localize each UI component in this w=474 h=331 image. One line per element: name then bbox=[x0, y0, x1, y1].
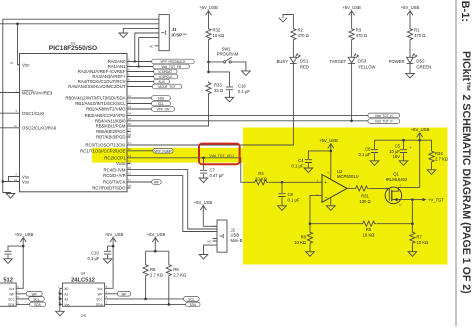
svg-text:WP: WP bbox=[97, 293, 102, 297]
svg-text:Mini-B: Mini-B bbox=[231, 238, 243, 243]
wire R31 to Q1 gate bbox=[369, 188, 389, 190]
svg-text:10 KΩ: 10 KΩ bbox=[363, 233, 375, 238]
wire U4 address bus to ground bbox=[60, 288, 63, 311]
svg-text:RB1/AN10/INT1/SCK/SCL: RB1/AN10/INT1/SCK/SCL bbox=[75, 101, 126, 106]
svg-text:RB3/AN9/CCP2/VPO: RB3/AN9/CCP2/VPO bbox=[85, 113, 126, 118]
wire RB3 row to Vdd_TGT_N tag bbox=[131, 114, 368, 116]
resistor R32 bbox=[206, 28, 224, 41]
svg-text:SCL: SCL bbox=[33, 297, 39, 301]
svg-text:Vdd_TGT_FB: Vdd_TGT_FB bbox=[161, 65, 181, 69]
capacitor (cut at edge) bbox=[4, 251, 11, 254]
svg-text:Vcc: Vcc bbox=[97, 287, 103, 291]
node divider right bbox=[411, 222, 414, 225]
svg-text:Vcc: Vcc bbox=[9, 287, 15, 291]
svg-text:28: 28 bbox=[128, 133, 132, 137]
svg-text:TARGET: TARGET bbox=[330, 59, 347, 64]
svg-text:+5V_USB: +5V_USB bbox=[105, 232, 124, 237]
svg-text:16V: 16V bbox=[393, 154, 401, 159]
svg-text:SDA: SDA bbox=[158, 97, 165, 101]
svg-text:VSS: VSS bbox=[22, 180, 29, 185]
svg-text:R6: R6 bbox=[301, 235, 307, 240]
svg-text:WP: WP bbox=[154, 181, 159, 185]
svg-text:A2: A2 bbox=[64, 298, 68, 302]
node R8 SCL junction bbox=[144, 298, 147, 301]
wire inverting input feedback bbox=[310, 195, 322, 223]
wire to C5 bbox=[403, 140, 405, 149]
wire U4 WP pin to tag bbox=[105, 293, 118, 295]
svg-text:RC6/TX/CK: RC6/TX/CK bbox=[103, 180, 126, 185]
U1 left pin OSC2/CLKO/RA6 (10) bbox=[14, 124, 57, 131]
svg-text:Vss: Vss bbox=[64, 303, 70, 307]
resistor R7 bbox=[410, 231, 428, 245]
node SDA tag bbox=[152, 96, 171, 101]
wire J1 pin4 down to RA0 row bbox=[135, 33, 155, 62]
svg-text:RB5/KBI1/PGM: RB5/KBI1/PGM bbox=[96, 124, 126, 129]
wire R4 to op-amp + input bbox=[269, 181, 323, 183]
svg-text:SDA: SDA bbox=[8, 303, 15, 307]
U1 left pin VDD (20) bbox=[10, 61, 30, 68]
svg-text:R5: R5 bbox=[366, 227, 372, 232]
svg-text:+5V_USB: +5V_USB bbox=[401, 5, 420, 10]
node DS3 to net bbox=[350, 120, 353, 123]
svg-text:RB7/KBI3/PGD: RB7/KBI3/PGD bbox=[96, 135, 125, 140]
ground below R7 bbox=[408, 252, 417, 257]
resistor R9 bbox=[166, 264, 186, 278]
wire RC6 row to tag bbox=[131, 181, 152, 183]
node R9 SDA junction bbox=[168, 303, 171, 306]
svg-text:SCL: SCL bbox=[8, 298, 14, 302]
op-amp U2 MCP6001U bbox=[317, 169, 359, 208]
svg-text:J1: J1 bbox=[172, 27, 178, 32]
svg-text:NC: NC bbox=[149, 44, 153, 48]
svg-text:0.1 μF: 0.1 μF bbox=[359, 152, 371, 157]
svg-text:470 Ω: 470 Ω bbox=[356, 33, 367, 38]
svg-text:DS3: DS3 bbox=[358, 58, 367, 63]
node C4 tap bbox=[330, 150, 333, 153]
wire RA3 row to tag bbox=[131, 76, 154, 78]
LED DS3 YELLOW (TARGET) bbox=[330, 54, 376, 70]
wire SDA pin to tag bbox=[16, 303, 29, 305]
wire RB2 row to tag bbox=[131, 108, 152, 110]
power +5V_USB left EEPROM bbox=[15, 232, 34, 242]
ground below C8 bbox=[278, 206, 287, 211]
svg-text:R32: R32 bbox=[213, 28, 221, 33]
wire C16 branch bbox=[209, 72, 230, 86]
svg-text:SDA: SDA bbox=[34, 303, 41, 307]
LED DS1 RED (BUSY) bbox=[277, 54, 309, 70]
svg-text:+: + bbox=[324, 180, 327, 186]
wire +5V to R3 bbox=[351, 11, 353, 27]
wire RA4 row to tag bbox=[131, 81, 154, 83]
svg-text:+V_TGT: +V_TGT bbox=[428, 197, 444, 202]
svg-text:10 KΩ: 10 KΩ bbox=[213, 33, 225, 38]
node pullup junction bbox=[154, 250, 157, 253]
svg-text:0.1 μF: 0.1 μF bbox=[238, 89, 250, 94]
svg-text:2*0: 2*0 bbox=[81, 314, 86, 318]
wire RA1 row to tag bbox=[131, 66, 154, 68]
wire rail to R34 bbox=[420, 140, 432, 150]
svg-text:VDD: VDD bbox=[22, 63, 30, 68]
wire J1 pin1 to left edge and down left side bbox=[3, 19, 155, 181]
node MCLR_TGT tag bbox=[152, 84, 182, 89]
wire +5V to op-amp V+ bbox=[330, 144, 332, 178]
wire R7 branch bbox=[411, 224, 413, 231]
node SDA tag left bbox=[30, 302, 46, 307]
wire R8 top bbox=[145, 251, 147, 263]
node Vdd_TGT_N tag bbox=[368, 113, 400, 118]
svg-text:ICSP™: ICSP™ bbox=[172, 33, 188, 38]
svg-text:27: 27 bbox=[128, 128, 132, 132]
svg-text:R34: R34 bbox=[435, 151, 443, 156]
ground below C7 bbox=[199, 178, 208, 183]
U1 right pin labels RA port bbox=[68, 59, 126, 89]
svg-text:RA5/AN4/SS/HLVDIN/C2OUT: RA5/AN4/SS/HLVDIN/C2OUT bbox=[68, 84, 126, 89]
node SW1 tap bbox=[207, 61, 210, 64]
node ICSPDAT tag bbox=[154, 69, 177, 74]
power +5V_USB above R8 R9 bbox=[147, 232, 166, 242]
wire RC4 D- to J2 bbox=[131, 170, 213, 229]
capacitor C10 bbox=[88, 251, 112, 262]
wire DS1 down into analog box to RC0 bbox=[131, 64, 294, 145]
wire down to C8 bbox=[281, 182, 283, 193]
wire J1 pin3 to ground bbox=[123, 28, 154, 33]
svg-text:10: 10 bbox=[14, 124, 18, 128]
node Vdd_TGT_P tag bbox=[368, 119, 400, 124]
node VPP_ON tag bbox=[152, 107, 175, 112]
wire RB0 row to tag bbox=[131, 97, 152, 99]
svg-text:SCL: SCL bbox=[188, 297, 194, 301]
ground below C10 bbox=[103, 259, 112, 264]
svg-text:0.1 μF: 0.1 μF bbox=[288, 198, 300, 203]
ground below VSS bbox=[6, 194, 15, 199]
wire C7 to ground bbox=[203, 174, 205, 178]
svg-text:10 μF: 10 μF bbox=[389, 149, 400, 154]
wire SCL pin to tag bbox=[16, 298, 29, 300]
wire C16 to ground bbox=[229, 90, 231, 97]
ground at SW1 bbox=[242, 71, 251, 76]
power +5V_USB at J2 bbox=[194, 200, 213, 210]
svg-text:VUSB: VUSB bbox=[116, 161, 125, 166]
node +5V rail junction bbox=[418, 139, 421, 142]
svg-text:DS2: DS2 bbox=[416, 58, 425, 63]
power +5V_USB above Q1 bbox=[411, 127, 430, 137]
node WP tag U4 bbox=[117, 292, 131, 297]
svg-text:RC0/T1OSO/T13CKI: RC0/T1OSO/T13CKI bbox=[85, 143, 125, 148]
ground below cap bbox=[4, 259, 13, 264]
wire RC5 D+ to J2 bbox=[131, 175, 213, 231]
U1 right pin labels RB port bbox=[65, 96, 126, 140]
svg-text:512: 512 bbox=[3, 277, 13, 283]
wire R2 to DS1 bbox=[292, 41, 294, 57]
ground below C4 bbox=[304, 168, 313, 173]
wire drain down to divider bbox=[411, 200, 413, 224]
wire to C10 bbox=[108, 246, 114, 251]
sidebar divider line bbox=[455, 0, 457, 326]
wire R1 to DS2 bbox=[409, 41, 411, 57]
svg-text:R33: R33 bbox=[214, 83, 222, 88]
svg-text:RB6/KBI2/PGC: RB6/KBI2/PGC bbox=[96, 129, 125, 134]
svg-text:R2: R2 bbox=[298, 28, 304, 33]
svg-text:RC5/D+/VP: RC5/D+/VP bbox=[103, 173, 125, 178]
svg-text:R3: R3 bbox=[356, 28, 362, 33]
svg-text:VPP_PUMP: VPP_PUMP bbox=[154, 149, 171, 153]
node bypass cap tap bbox=[22, 245, 25, 248]
svg-text:SCL: SCL bbox=[96, 298, 102, 302]
wire C8 to ground bbox=[281, 197, 283, 206]
node A1 junction bbox=[59, 293, 61, 295]
resistor R31 bbox=[354, 186, 370, 204]
ground below C5 bbox=[399, 161, 408, 166]
ground below DS2 bbox=[406, 73, 415, 78]
wire +5V rail down left EEPROM bbox=[16, 238, 23, 288]
node Q1 drain junction bbox=[411, 198, 414, 201]
resistor R1 bbox=[407, 28, 425, 41]
wire C5 to ground bbox=[403, 153, 405, 161]
wire +5V to J2 pin1 bbox=[203, 206, 217, 226]
wire RC1 row to tag bbox=[131, 150, 154, 152]
wire R7 to ground bbox=[411, 244, 413, 251]
power +5V_USB above R1 bbox=[401, 5, 420, 15]
capacitor C8 bbox=[278, 192, 299, 203]
node RA0 junction bbox=[134, 60, 136, 62]
resistor R2 bbox=[291, 28, 309, 41]
ground below C6 bbox=[370, 161, 379, 166]
wire R9 to SDA net bbox=[168, 277, 170, 305]
node AUX tag bbox=[154, 79, 170, 84]
wire U4 SCL to tag bbox=[105, 298, 184, 300]
svg-text:24LC512: 24LC512 bbox=[71, 277, 95, 283]
svg-text:0.1 μF: 0.1 μF bbox=[292, 164, 304, 169]
wire VSS pins to ground rail bbox=[3, 177, 20, 194]
svg-text:MCLR/VPP/RE3: MCLR/VPP/RE3 bbox=[22, 90, 53, 95]
LED DS2 GREEN (POWER) bbox=[389, 54, 432, 70]
svg-text:20: 20 bbox=[10, 61, 14, 65]
wire Q1 source to +5V rail bbox=[398, 140, 419, 187]
power +5V_USB above C10 bbox=[105, 232, 124, 242]
node VPP_PUMP tag bbox=[153, 149, 173, 154]
svg-text:C6: C6 bbox=[365, 147, 371, 152]
wire R33 down to RB5 pin bbox=[131, 95, 209, 126]
U1 right pin stubs and pin numbers bbox=[127, 58, 132, 189]
wire DS3 down to Vdd_TGT_P net bbox=[351, 64, 353, 121]
svg-text:IRLML6402: IRLML6402 bbox=[386, 177, 408, 182]
svg-text:A0: A0 bbox=[64, 287, 68, 291]
svg-text:470 Ω: 470 Ω bbox=[298, 33, 309, 38]
svg-text:C5: C5 bbox=[395, 144, 401, 149]
node C5 tap bbox=[402, 139, 405, 142]
svg-text:14: 14 bbox=[128, 160, 132, 164]
svg-text:0.47 μF: 0.47 μF bbox=[210, 173, 225, 178]
svg-text:C8: C8 bbox=[288, 192, 294, 197]
svg-text:RED: RED bbox=[300, 64, 309, 69]
wire RB1 row to tag bbox=[131, 103, 152, 105]
svg-text:C16: C16 bbox=[238, 84, 246, 89]
svg-text:WP: WP bbox=[9, 293, 14, 297]
svg-text:VPP_ON: VPP_ON bbox=[157, 108, 171, 112]
svg-text:2.7 KΩ: 2.7 KΩ bbox=[173, 272, 186, 277]
svg-text:B-1:: B-1: bbox=[459, 1, 471, 22]
svg-text:10 KΩ: 10 KΩ bbox=[416, 240, 428, 245]
svg-text:Q1: Q1 bbox=[393, 172, 399, 177]
wire R6 branch bbox=[309, 224, 311, 231]
wire J2 pin5 to ground bbox=[204, 245, 213, 254]
resistor R33 bbox=[206, 82, 223, 95]
connector J2 USB Mini-B bbox=[207, 220, 242, 252]
svg-text:470 Ω: 470 Ω bbox=[414, 33, 425, 38]
U1 left pin OSC1/CLKI (9) bbox=[15, 109, 44, 116]
node SCL tag right bbox=[184, 297, 200, 302]
svg-text:A1: A1 bbox=[64, 293, 68, 297]
svg-text:+5V_USB: +5V_USB bbox=[194, 200, 213, 205]
svg-text:VPP_FEEDBACK: VPP_FEEDBACK bbox=[160, 60, 186, 64]
svg-text:AUX: AUX bbox=[158, 80, 165, 84]
svg-text:2.7 KΩ: 2.7 KΩ bbox=[435, 157, 448, 162]
svg-text:C4: C4 bbox=[298, 158, 304, 163]
switch SW1 PROGRAM bbox=[209, 47, 239, 63]
svg-text:100 Ω: 100 Ω bbox=[359, 199, 370, 204]
svg-text:YELLOW: YELLOW bbox=[358, 64, 376, 69]
resistor R5 bbox=[361, 221, 376, 238]
svg-text:S: S bbox=[400, 183, 402, 187]
wire +5V rail down bbox=[419, 133, 421, 140]
svg-text:SCL: SCL bbox=[158, 102, 164, 106]
wire +5V to pullups bbox=[146, 238, 169, 251]
node Vdd_TGT_ADJ red callout box bbox=[199, 144, 240, 165]
node Vdd_TGT_FB tag bbox=[153, 64, 189, 69]
wire U4 SDA to tag bbox=[105, 303, 186, 305]
svg-text:PICkit™ 2 SCHEMATIC DIAGRAM (P: PICkit™ 2 SCHEMATIC DIAGRAM (PAGE 1 OF 2… bbox=[460, 51, 472, 294]
op-amp U1 PIC18F2550 body bbox=[20, 41, 128, 192]
node C8 tap bbox=[281, 181, 284, 184]
svg-text:MCP6001U: MCP6001U bbox=[337, 174, 359, 179]
wire C4 to ground bbox=[307, 163, 309, 168]
svg-text:OSC2/CLKO/RA6: OSC2/CLKO/RA6 bbox=[22, 126, 57, 131]
svg-text:R31: R31 bbox=[361, 194, 369, 199]
svg-text:MCLR_TGT: MCLR_TGT bbox=[158, 85, 175, 89]
wire J1 pin5 down to RA1 row bbox=[139, 38, 155, 67]
svg-text:+5V_USB: +5V_USB bbox=[319, 138, 338, 143]
svg-text:RB2/AN8/INT2/VMO: RB2/AN8/INT2/VMO bbox=[86, 107, 126, 112]
node C7 tap bbox=[202, 157, 205, 160]
node ICSPCLK tag bbox=[154, 74, 178, 79]
node SCL tag bbox=[152, 101, 171, 106]
svg-text:18: 18 bbox=[128, 184, 132, 188]
svg-text:NC: NC bbox=[207, 239, 211, 243]
svg-text:PIC18F2550/SO: PIC18F2550/SO bbox=[49, 45, 97, 52]
ground below J2 bbox=[199, 255, 208, 260]
svg-text:C10: C10 bbox=[91, 251, 99, 256]
wire RA2 row to tag bbox=[131, 71, 154, 73]
node SDA tag right bbox=[186, 302, 200, 307]
resistor R6 bbox=[294, 231, 312, 245]
svg-text:R7: R7 bbox=[416, 235, 422, 240]
wire R6 to ground bbox=[309, 244, 311, 251]
wire J1 pin2 across top to left edge bbox=[0, 23, 155, 25]
node WP tag bbox=[152, 180, 162, 185]
svg-text:POWER: POWER bbox=[389, 59, 405, 64]
wire C6 to ground bbox=[374, 153, 376, 161]
svg-text:+5V_USB: +5V_USB bbox=[15, 232, 34, 237]
wire DS2 to ground bbox=[409, 64, 411, 74]
node SCL tag left bbox=[29, 297, 45, 302]
resistor R8 bbox=[143, 264, 163, 278]
wire RA0 row to tag bbox=[131, 61, 152, 63]
svg-text:Vdd_TGT_N: Vdd_TGT_N bbox=[375, 114, 394, 118]
node +V_TGT output arrow bbox=[412, 197, 444, 202]
svg-text:Vdd_TGT_ADJ: Vdd_TGT_ADJ bbox=[209, 154, 234, 158]
svg-text:D: D bbox=[400, 203, 402, 207]
wire RA5 row to tag bbox=[131, 86, 153, 88]
wire OSC2 row to left edge bbox=[0, 127, 20, 129]
svg-text:ICSPDAT: ICSPDAT bbox=[159, 70, 173, 74]
U1 left pin MCLR/VPP/RE3 (1) bbox=[15, 89, 52, 96]
svg-text:C7: C7 bbox=[210, 168, 216, 173]
svg-text:R4: R4 bbox=[258, 171, 264, 176]
svg-text:RC4/D-/VM: RC4/D-/VM bbox=[104, 167, 126, 172]
svg-text:ICSPCLK: ICSPCLK bbox=[159, 75, 174, 79]
ground below R6 bbox=[306, 252, 315, 257]
node C10 tap bbox=[112, 245, 115, 248]
wire OSC1 row to left edge bbox=[0, 112, 20, 114]
wire rail to C6 C5 bbox=[375, 140, 420, 149]
U1 left pins VSS (8,19) bbox=[14, 173, 29, 185]
capacitor C6 bbox=[359, 147, 379, 158]
node divider left bbox=[309, 222, 312, 225]
svg-text:GREEN: GREEN bbox=[416, 64, 431, 69]
EEPROM (cut at left edge) bbox=[0, 277, 19, 307]
svg-text:+5V_USB: +5V_USB bbox=[411, 127, 430, 132]
svg-text:WP: WP bbox=[121, 292, 126, 296]
node WP tag left bbox=[26, 292, 42, 297]
wire RB4 row to Vdd_TGT_P tag bbox=[131, 120, 368, 122]
svg-text:SDA: SDA bbox=[96, 303, 103, 307]
power arrow above R2 bbox=[279, 15, 294, 23]
transistor Q1 IRLML6402 bbox=[385, 172, 412, 207]
wire op-amp output to R31 bbox=[347, 187, 354, 189]
capacitor C5 polarized bbox=[389, 144, 412, 160]
wire down to C7 bbox=[203, 158, 205, 170]
highlight box around analog power section bbox=[243, 128, 448, 265]
wire op-amp V- pin to ground bbox=[330, 199, 332, 206]
wire R32 to SW1 node bbox=[208, 41, 210, 62]
svg-text:+5V_USB: +5V_USB bbox=[199, 5, 218, 10]
node A2 junction bbox=[59, 298, 61, 300]
svg-text:U4: U4 bbox=[81, 272, 86, 276]
wire SW1 to ground bbox=[233, 62, 246, 71]
svg-text:R1: R1 bbox=[414, 28, 420, 33]
U1 right pin labels RC port bbox=[80, 143, 126, 191]
wire cap to ground bbox=[7, 255, 9, 259]
svg-text:−: − bbox=[324, 196, 327, 202]
capacitor C4 bbox=[292, 158, 312, 169]
ground below R34 bbox=[427, 170, 436, 175]
wire feedback divider rail bbox=[310, 223, 412, 225]
wire R9 top bbox=[168, 251, 170, 263]
wire to C4 bbox=[308, 151, 330, 159]
wire R32 node down to C16 tap bbox=[208, 62, 210, 72]
wire +5V to R1 bbox=[409, 11, 411, 27]
svg-text:G: G bbox=[386, 187, 388, 191]
svg-text:BUSY: BUSY bbox=[277, 59, 289, 64]
node C16 tap bbox=[207, 71, 210, 74]
wire C10 to ground bbox=[107, 255, 109, 259]
resistor R4 bbox=[253, 171, 268, 185]
wire R8 to SCL net bbox=[145, 277, 147, 299]
power +5V_USB above R3 bbox=[342, 5, 361, 15]
svg-text:0.1 μF: 0.1 μF bbox=[88, 256, 100, 261]
wire +5V rail to R32 bbox=[208, 11, 210, 27]
EEPROM U4 24LC512 bbox=[58, 272, 108, 319]
